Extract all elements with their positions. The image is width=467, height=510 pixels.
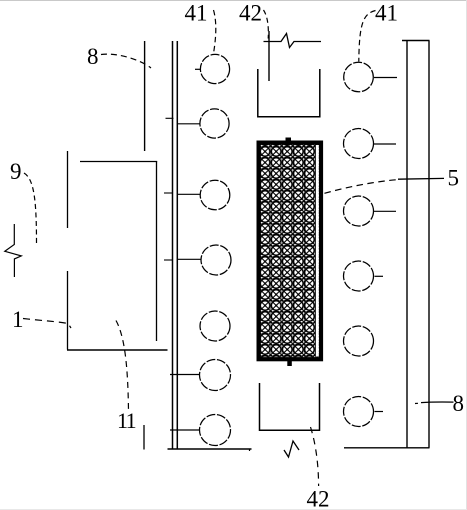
tick R2	[374, 143, 396, 145]
leader 5 dashed part	[314, 180, 400, 197]
svg-text:42: 42	[239, 1, 262, 26]
leader 41 top left	[214, 10, 216, 54]
nozzle L4	[201, 245, 231, 275]
nozzle R1	[344, 62, 374, 92]
nozzle R3	[344, 196, 374, 226]
leader 11	[116, 321, 129, 413]
nozzle R4	[344, 261, 374, 291]
tank (1) left wall lower	[67, 271, 69, 350]
mesh panel (5)	[259, 143, 321, 360]
mesh right inner gap	[316, 145, 319, 357]
tick R3	[374, 210, 396, 212]
bottom container (42)	[260, 383, 320, 430]
leader 41 top right	[359, 11, 376, 62]
end tick of bottom line	[249, 449, 251, 451]
nozzle L1	[200, 54, 229, 83]
page right border	[466, 0, 467, 510]
tick L4	[178, 258, 201, 260]
nozzle L3	[200, 180, 230, 210]
tick R6	[375, 411, 384, 413]
broken feed line	[264, 34, 322, 48]
nozzle R2	[344, 129, 374, 159]
top container (42)	[258, 69, 320, 117]
right plate (8) top	[402, 40, 430, 42]
svg-text:9: 9	[10, 159, 22, 184]
rail tick b	[166, 117, 174, 119]
mesh bottom nub	[287, 360, 292, 366]
left rail line 2	[176, 41, 178, 449]
nozzle R5	[344, 326, 374, 356]
rail tick d	[164, 259, 172, 261]
tick L3	[178, 193, 201, 195]
right plate left wall	[406, 41, 408, 448]
leader 42 bottom	[311, 427, 319, 486]
svg-text:11: 11	[117, 408, 136, 433]
svg-text:41: 41	[375, 1, 398, 26]
left rail line 1	[172, 41, 174, 449]
stray mark near 11	[143, 425, 145, 450]
tank (1) bottom wall	[67, 349, 168, 351]
leader 8 top left	[101, 54, 151, 68]
tank (1) left wall upper	[67, 151, 69, 228]
svg-text:8: 8	[87, 44, 99, 69]
tick L1	[195, 68, 201, 70]
tick L6	[170, 374, 200, 376]
bottom break symbol	[284, 441, 299, 457]
svg-text:8: 8	[453, 391, 465, 416]
svg-text:1: 1	[12, 307, 24, 332]
nozzle L6	[200, 360, 231, 391]
feed pipe (42)	[268, 31, 270, 81]
leader 9	[24, 173, 37, 243]
leader 1	[23, 319, 71, 329]
leader 8 right	[415, 402, 418, 404]
nozzle L5	[200, 311, 230, 341]
leader 42 top	[264, 10, 269, 39]
page top border	[0, 0, 467, 2]
svg-text:42: 42	[307, 487, 330, 510]
mesh top nub	[286, 138, 292, 144]
left plate (8)	[144, 41, 146, 151]
right plate right wall	[428, 41, 430, 448]
page bottom border	[0, 509, 467, 510]
svg-text:5: 5	[448, 166, 460, 191]
svg-text:41: 41	[185, 1, 208, 26]
leader 5 solid part	[398, 177, 444, 180]
bottom line right	[344, 447, 430, 449]
tick L7	[170, 429, 200, 431]
rail tick c	[164, 192, 172, 194]
bottom line left	[168, 448, 252, 450]
mesh inner right line	[314, 145, 316, 357]
tick R1	[374, 77, 397, 79]
nozzle L2	[200, 109, 229, 138]
tick L2	[178, 123, 200, 125]
nozzle R6	[344, 397, 374, 427]
tank (1) right wall	[156, 162, 158, 342]
tank (1) top wall	[80, 161, 157, 163]
tick R4	[375, 275, 384, 277]
nozzle L7	[200, 415, 231, 446]
break symbol (9)	[5, 224, 22, 277]
